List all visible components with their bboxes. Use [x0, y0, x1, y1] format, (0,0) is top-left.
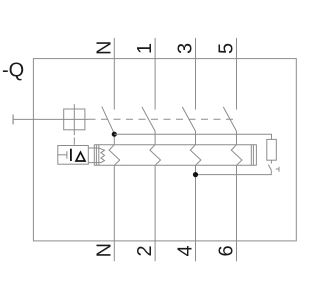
relay delta symbol — [76, 152, 85, 161]
wire resistor to switch — [270, 160, 272, 163]
CT primary wave pole N — [109, 145, 120, 166]
wire pole 1 to CT — [154, 131, 156, 145]
contact blade pole 1 — [142, 107, 155, 131]
wire pole 3 bottom — [195, 165, 197, 261]
wire pole 3 top — [195, 38, 197, 110]
device outline — [33, 59, 296, 241]
wire test button feed — [13, 118, 88, 120]
svg-text:6: 6 — [216, 245, 238, 256]
relay box K — [58, 146, 89, 165]
secondary winding zigzag — [99, 148, 105, 163]
node dot pole 3 test return — [193, 172, 198, 177]
contact blade pole N — [102, 107, 115, 134]
svg-text:5: 5 — [216, 43, 238, 54]
mechanical link button to relay dashed — [73, 137, 75, 144]
test button T — [64, 109, 85, 130]
wire pole 1 top — [154, 38, 156, 110]
secondary winding upper lead — [88, 147, 99, 149]
svg-text:1: 1 — [134, 43, 156, 54]
test button actuator stem — [73, 104, 75, 135]
test terminal tick — [12, 115, 14, 125]
relay armature bar — [66, 151, 68, 158]
test resistor R — [267, 139, 277, 160]
svg-text:N: N — [93, 41, 115, 55]
CT primary wave pole 5 — [231, 145, 242, 166]
wire pole 5 to CT — [236, 131, 238, 145]
CT band top — [94, 144, 256, 146]
contact blade pole 5 — [223, 107, 236, 131]
svg-text:4: 4 — [175, 245, 197, 256]
wire pole N bottom — [113, 165, 115, 261]
CT core left lines — [93, 144, 95, 165]
test switch blade — [268, 165, 271, 171]
svg-text:-Q: -Q — [2, 60, 24, 82]
CT core right lines — [250, 144, 252, 165]
svg-text:N: N — [93, 243, 115, 257]
CT primary wave pole 1 — [150, 145, 161, 166]
wire pole 3 to CT — [195, 131, 197, 145]
wire pole 5 bottom — [236, 165, 238, 261]
node dot N test tap — [112, 132, 117, 137]
relay armature lead — [58, 154, 67, 156]
secondary winding lower lead — [88, 162, 99, 164]
wire pole N to CT — [113, 134, 115, 145]
svg-text:2: 2 — [134, 245, 156, 256]
test switch fixed contact — [276, 168, 279, 170]
mechanical linkage dashed — [89, 118, 234, 120]
svg-text:3: 3 — [175, 43, 197, 54]
wire pole 1 bottom — [154, 165, 156, 261]
CT primary wave pole 3 — [190, 145, 201, 166]
wire test return — [196, 170, 272, 175]
wire test N to resistor — [114, 134, 271, 139]
contact blade pole 3 — [182, 107, 195, 131]
CT band bottom — [94, 164, 256, 166]
wire pole N top — [113, 38, 115, 110]
wire pole 5 top — [236, 38, 238, 110]
relay coil bar bold — [70, 149, 72, 161]
